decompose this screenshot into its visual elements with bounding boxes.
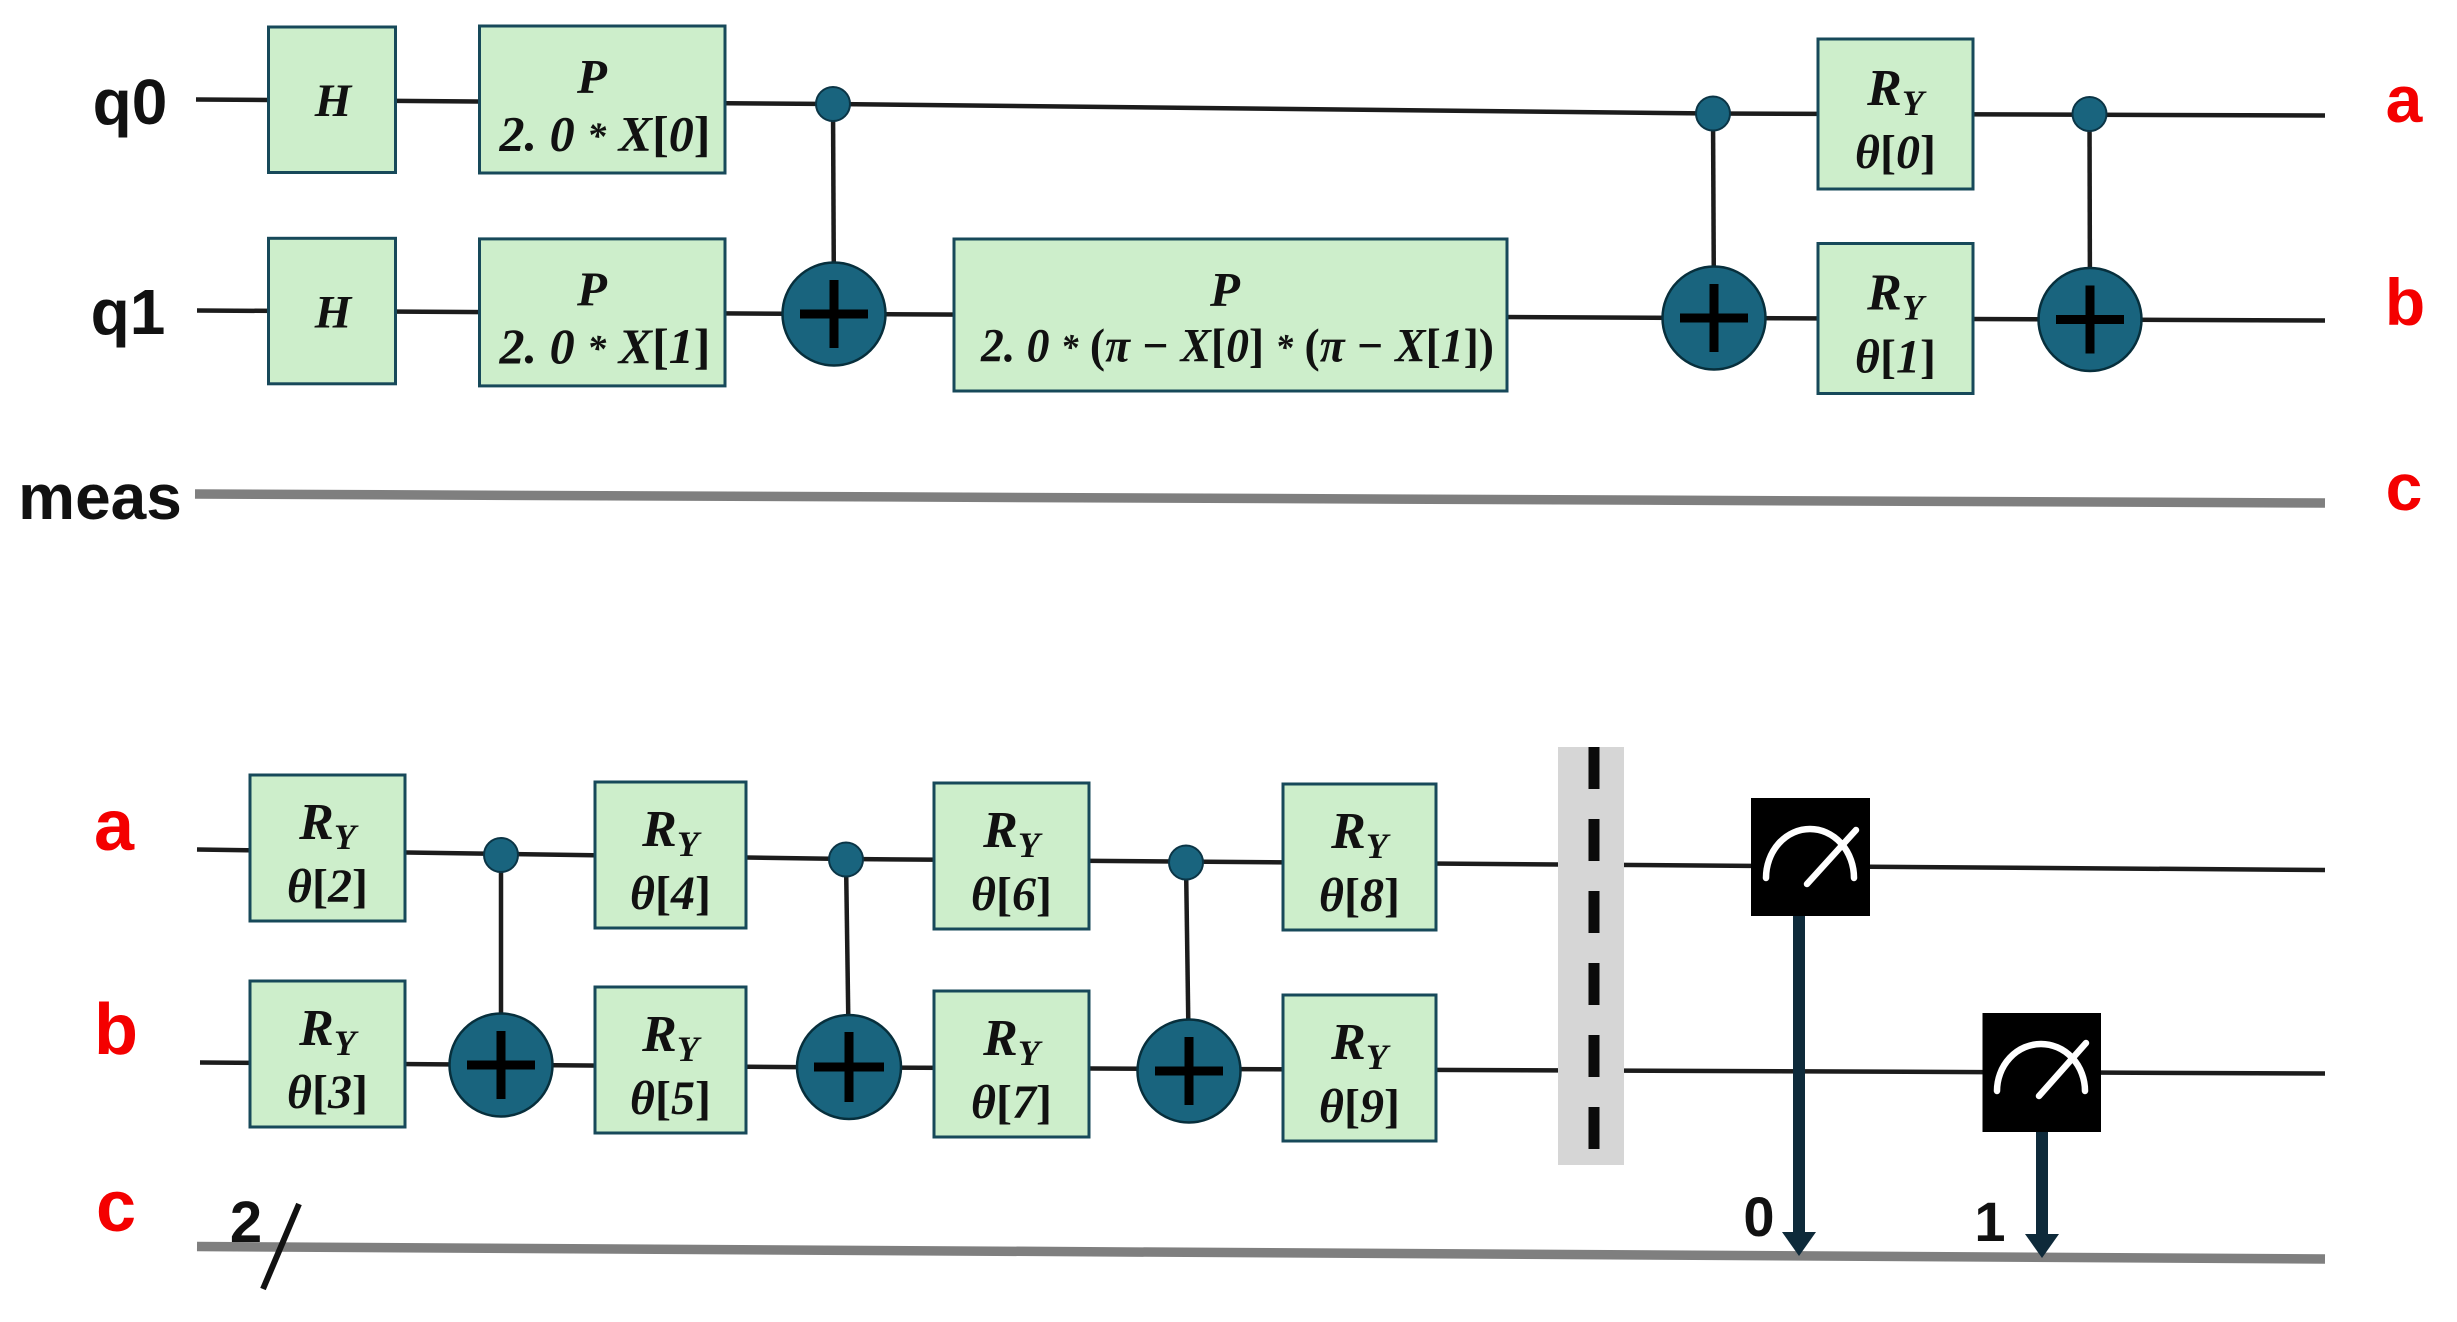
CNOT target on q1 (CX1)	[783, 263, 886, 366]
P gate 2.0*(pi-X[0]*(pi-X[1]) on q1	[954, 239, 1507, 391]
svg-text:1: 1	[1974, 1190, 2005, 1253]
CNOT target on b (CX b2)	[797, 1015, 901, 1119]
P gate 2.0*X[1] on q1	[480, 239, 726, 386]
RY gate theta[7] on b	[934, 991, 1089, 1137]
RY gate theta[0] on q0	[1818, 39, 1973, 189]
svg-text:0: 0	[1743, 1185, 1774, 1248]
RY gate theta[5] on b	[595, 987, 746, 1133]
control dot on q0 (CX1)	[816, 87, 850, 121]
P gate 2.0*X[0] on q0	[480, 26, 726, 173]
H gate on q1	[269, 238, 396, 383]
control dot on q0 (CX3)	[2073, 97, 2107, 131]
RY gate theta[8] on a	[1283, 784, 1436, 930]
svg-text:θ[9]: θ[9]	[1319, 1080, 1400, 1133]
control dot on a (CX b2)	[829, 843, 863, 877]
svg-text:c: c	[96, 1167, 136, 1247]
classical wire c (bottom)	[197, 1247, 2325, 1260]
svg-text:θ[1]: θ[1]	[1855, 331, 1936, 384]
wire: CX3 vertical link	[2087, 114, 2092, 320]
svg-text:2. 0 * (π − X[0] * (π − X[1]): 2. 0 * (π − X[0] * (π − X[1])	[980, 320, 1494, 373]
svg-text:meas: meas	[18, 461, 182, 533]
svg-text:a: a	[94, 786, 135, 866]
svg-text:b: b	[2385, 265, 2425, 339]
svg-text:θ[0]: θ[0]	[1855, 126, 1936, 179]
svg-text:q0: q0	[93, 66, 168, 138]
RY gate theta[3] on b	[250, 981, 405, 1127]
wire: bottom CX3 vertical link	[1186, 863, 1189, 1072]
measure-to-c wire (1)	[2025, 1132, 2059, 1258]
svg-text:θ[8]: θ[8]	[1319, 869, 1400, 922]
CNOT target on q1 (CX3)	[2039, 268, 2142, 371]
svg-text:θ[5]: θ[5]	[630, 1072, 711, 1125]
svg-text:b: b	[94, 990, 138, 1070]
svg-text:θ[4]: θ[4]	[630, 867, 711, 920]
svg-text:P: P	[576, 49, 608, 104]
measurement box on b	[1983, 1013, 2102, 1132]
wire: CX2 vertical link	[1713, 114, 1714, 319]
bus slash on c	[263, 1204, 299, 1289]
RY gate theta[9] on b	[1283, 995, 1436, 1141]
wire: bottom CX1 vertical link	[499, 855, 504, 1065]
control dot on a (CX b3)	[1169, 846, 1203, 880]
qubit wire a (bottom)	[197, 850, 2325, 871]
qubit wire b (bottom)	[200, 1063, 2325, 1074]
RY gate theta[1] on q1	[1818, 244, 1973, 394]
H gate on q0	[269, 27, 396, 173]
barrier dashed line	[1589, 747, 1600, 1160]
svg-text:P: P	[576, 262, 608, 317]
svg-text:P: P	[1209, 262, 1241, 317]
classical wire meas	[195, 494, 2325, 503]
RY gate theta[6] on a	[934, 783, 1089, 929]
qubit wire q1	[197, 311, 2325, 321]
svg-text:a: a	[2386, 62, 2424, 136]
wire: bottom CX2 vertical link	[846, 860, 849, 1068]
control dot on q0 (CX2)	[1696, 97, 1730, 131]
svg-text:c: c	[2386, 450, 2423, 524]
control dot on a (CX b1)	[484, 838, 518, 872]
qubit wire q0	[196, 100, 2325, 116]
CNOT target on q1 (CX2)	[1663, 267, 1766, 370]
svg-text:θ[3]: θ[3]	[287, 1066, 368, 1119]
RY gate theta[4] on a	[595, 782, 746, 928]
svg-text:H: H	[314, 75, 353, 127]
svg-text:θ[2]: θ[2]	[287, 860, 368, 913]
svg-text:2: 2	[230, 1190, 262, 1255]
measure-to-c wire (0)	[1782, 916, 1816, 1256]
svg-text:H: H	[314, 287, 353, 339]
CNOT target on b (CX b1)	[450, 1014, 553, 1117]
RY gate theta[2] on a	[250, 775, 405, 921]
svg-text:θ[6]: θ[6]	[971, 868, 1052, 921]
svg-text:θ[7]: θ[7]	[971, 1076, 1052, 1129]
svg-text:q1: q1	[91, 276, 166, 348]
CNOT target on b (CX b3)	[1138, 1020, 1241, 1123]
measurement box on a	[1751, 798, 1870, 916]
barrier band	[1558, 747, 1624, 1165]
wire: CX1 vertical link	[833, 104, 834, 314]
